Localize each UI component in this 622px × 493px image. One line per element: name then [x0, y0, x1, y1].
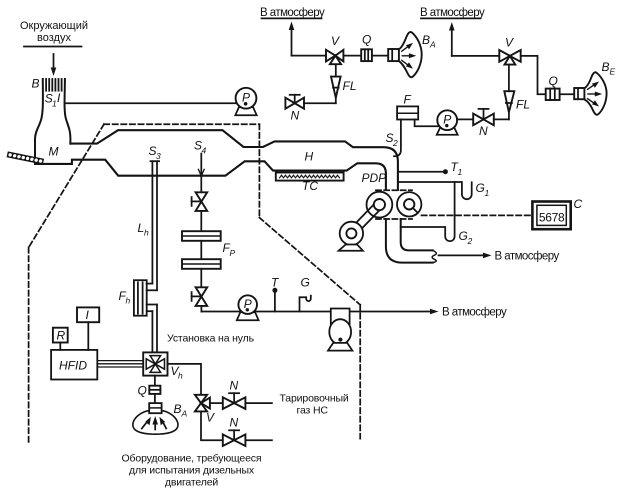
pipe V to N (cal gas upper)	[210, 402, 223, 404]
manometer G2	[401, 182, 455, 241]
svg-text:В атмосферу: В атмосферу	[495, 251, 560, 263]
svg-text:Оборудование, требующееся: Оборудование, требующееся	[122, 453, 262, 465]
svg-text:двигателей: двигателей	[165, 477, 219, 489]
svg-text:E: E	[610, 67, 616, 77]
svg-text:3: 3	[156, 151, 161, 161]
svg-text:M: M	[49, 145, 59, 159]
vent line to atmosphere (top middle)	[289, 22, 326, 56]
svg-text:Тарировочный: Тарировочный	[280, 393, 349, 405]
svg-text:В атмосферу: В атмосферу	[420, 7, 485, 19]
svg-text:B: B	[422, 33, 430, 47]
svg-text:FL: FL	[516, 98, 530, 112]
svg-text:1: 1	[485, 188, 490, 198]
svg-text:1: 1	[458, 167, 463, 177]
exhaust elbow below PDP	[386, 219, 436, 263]
svg-text:B: B	[32, 77, 40, 91]
vacuum gauge G	[300, 296, 311, 312]
dashed boundary of sampling equipment	[29, 124, 361, 442]
svg-text:C: C	[574, 197, 583, 211]
svg-text:V: V	[206, 411, 215, 425]
svg-text:FL: FL	[343, 79, 357, 93]
valve N (cal gas upper)	[223, 393, 246, 409]
probe S4 line	[198, 154, 204, 193]
svg-text:G: G	[459, 229, 468, 243]
pipe F to pump (top right)	[415, 120, 439, 127]
temperature tap T1	[398, 169, 448, 174]
svg-text:В атмосферу: В атмосферу	[442, 307, 507, 319]
label BA top	[422, 33, 436, 50]
label calibration gas	[280, 393, 349, 417]
svg-text:H: H	[305, 150, 314, 164]
svg-text:h: h	[144, 228, 149, 238]
vent riser (top right)	[449, 22, 499, 56]
valve N (top middle)	[285, 95, 304, 109]
three-way valve V (top middle)	[326, 50, 343, 64]
heater TC	[276, 173, 344, 181]
svg-text:Q: Q	[549, 74, 558, 88]
svg-text:HFID: HFID	[59, 359, 87, 373]
svg-text:N: N	[291, 109, 300, 123]
filter Q (burner air)	[149, 376, 160, 403]
pipe N to FL riser (top right)	[494, 118, 509, 120]
label BE	[602, 60, 616, 77]
three-way valve V (calibration)	[195, 395, 210, 412]
flowmeter FL (top middle)	[331, 64, 341, 103]
label S4	[194, 139, 207, 156]
three-way valve V (top right)	[499, 50, 520, 65]
label S2	[386, 131, 399, 148]
pipe N lower to right	[245, 439, 272, 441]
heated filter Fh	[134, 280, 157, 352]
analyzer HFID	[51, 350, 97, 380]
probe S3 (heated double line)	[151, 161, 160, 290]
svg-text:F: F	[404, 93, 412, 107]
pipe to cal gas text	[245, 402, 272, 404]
revolution counter C	[532, 202, 570, 230]
particulate filters FP	[182, 211, 221, 287]
positive displacement pump PDP	[339, 190, 422, 251]
label ambient air text	[20, 20, 88, 44]
valve N (top right)	[473, 109, 494, 125]
pipe V down to N (cal gas lower)	[201, 411, 223, 440]
svg-text:4: 4	[202, 146, 207, 156]
pump P (bottom)	[237, 295, 259, 320]
svg-text:N: N	[230, 379, 239, 393]
svg-text:для испытания дизельных: для испытания дизельных	[129, 465, 255, 477]
svg-text:A: A	[429, 40, 436, 50]
caption equipment note	[122, 453, 262, 489]
label Lh	[138, 221, 150, 238]
svg-text:Окружающий: Окружающий	[20, 20, 88, 32]
four-way valve Vh	[143, 352, 167, 375]
manometer G1	[398, 182, 472, 199]
arrow to atmosphere (PDP exhaust)	[439, 253, 492, 259]
blower BE (top right)	[574, 72, 606, 115]
dilution tunnel bottom wall	[35, 160, 386, 190]
pump P (dilution air)	[235, 88, 256, 115]
svg-text:Установка на нуль: Установка на нуль	[167, 333, 255, 345]
coupling Q (top right)	[546, 89, 575, 100]
label BA bottom	[174, 402, 188, 419]
pipe V to Q (top right)	[521, 56, 546, 94]
needle valve (S4 upper)	[192, 192, 208, 211]
pipe pump to N (top right)	[457, 118, 473, 120]
flowmeter FL (top right)	[504, 65, 514, 120]
svg-text:N: N	[479, 124, 488, 138]
svg-text:2: 2	[467, 236, 473, 246]
needle valve (S4 lower)	[192, 287, 208, 306]
svg-text:воздух: воздух	[37, 32, 71, 44]
label FP	[223, 241, 236, 258]
blower (bottom exhaust)	[328, 309, 352, 351]
sample pipe from funnel to pump P	[65, 102, 236, 104]
pipe N to FL riser	[304, 102, 336, 104]
svg-text:В атмосферу: В атмосферу	[260, 7, 325, 19]
svg-text:газ НС: газ НС	[297, 405, 329, 417]
label G2	[459, 229, 473, 246]
svg-text:B: B	[174, 402, 182, 416]
recorder R box	[53, 328, 68, 350]
funnel inlet B with filter comb	[35, 79, 70, 164]
pump P (top right)	[437, 110, 458, 135]
label S3	[149, 144, 162, 161]
svg-text:5678: 5678	[539, 210, 565, 224]
svg-text:N: N	[230, 416, 239, 430]
filter F (top right)	[397, 106, 418, 119]
svg-text:R: R	[57, 329, 66, 343]
svg-text:h: h	[178, 371, 183, 381]
label Vh	[171, 364, 184, 381]
svg-text:h: h	[126, 296, 131, 306]
label G1	[476, 181, 490, 198]
label S1	[45, 91, 61, 109]
svg-text:P: P	[230, 248, 236, 258]
svg-text:V: V	[505, 36, 514, 50]
svg-text:G: G	[476, 181, 485, 195]
label T1	[451, 160, 463, 177]
svg-text:G: G	[301, 276, 310, 290]
probe S2 line from duct to F	[394, 120, 401, 157]
svg-text:PDP: PDP	[362, 171, 387, 185]
integrator I box	[77, 307, 99, 350]
svg-text:B: B	[602, 60, 610, 74]
arrow into funnel B	[51, 54, 57, 76]
probe M (hatched transfer tube)	[7, 151, 44, 164]
temperature sensor T	[272, 288, 277, 312]
zero-set line from Vh to V	[168, 364, 202, 395]
label Fh	[119, 289, 131, 306]
svg-text:V: V	[331, 34, 340, 48]
dashed link PDP to counter	[422, 214, 532, 216]
bottom sample pipe to atmosphere	[201, 306, 438, 314]
coupling Q (top middle)	[343, 49, 372, 61]
svg-text:Q: Q	[362, 33, 371, 47]
svg-text:Q: Q	[138, 384, 147, 398]
underline of ambient air	[24, 46, 82, 48]
svg-text:A: A	[181, 409, 188, 419]
valve N (cal gas lower)	[223, 430, 246, 446]
svg-text:2: 2	[392, 138, 398, 148]
dilution tunnel top wall	[70, 130, 398, 190]
heated sample bundle HFID to Vh	[97, 361, 143, 367]
blower BA (top middle)	[372, 32, 422, 77]
svg-text:TC: TC	[302, 179, 318, 193]
burner air intake BA (bottom)	[133, 403, 178, 434]
